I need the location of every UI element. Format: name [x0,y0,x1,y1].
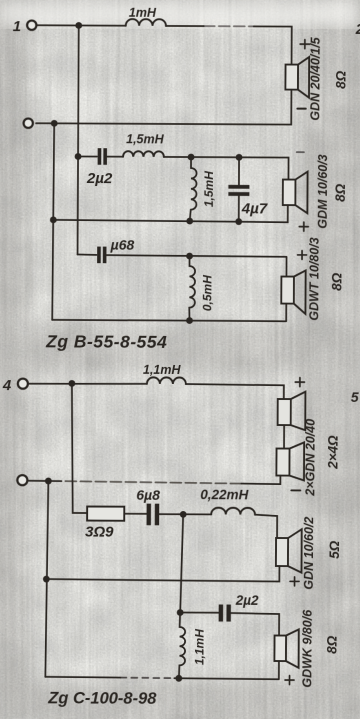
wire vertical bus G [45,481,48,677]
wire link between stack speakers [283,425,285,448]
svg-text:GDM 10/60/3: GDM 10/60/3 [316,154,330,228]
node junction L7 bottom [175,675,182,682]
svg-text:1,1mH: 1,1mH [192,629,206,665]
wire bottom rail [52,302,286,321]
wire [164,157,289,179]
wire top rail left [37,24,126,26]
svg-text:8Ω: 8Ω [333,183,348,202]
svg-text:Zg B-55-8-554: Zg B-55-8-554 [45,331,167,352]
wire LS1 bottom [36,88,291,124]
terminal 4 [2,377,28,394]
plus mark LS6 [285,676,294,685]
svg-text:1,5mH: 1,5mH [126,132,165,146]
wire top rail right [166,25,204,27]
wire [124,513,146,515]
svg-text:µ68: µ68 [110,237,135,253]
svg-text:0,22mH: 0,22mH [200,487,248,502]
inductor L5 1,1mH [143,363,186,384]
wire vertical from node F [71,383,88,513]
inductor L3 1,5mH shunt [190,157,216,221]
wire tweeter branch [180,612,218,614]
speaker LS3 GDWT 10/80/3 [281,237,344,321]
svg-text:Zg C-100-8-98: Zg C-100-8-98 [47,689,157,708]
wire [186,384,284,399]
node F junction [68,380,75,387]
svg-text:5Ω: 5Ω [327,540,342,559]
node junction C2 bottom [235,218,242,225]
node C junction [188,154,195,161]
svg-text:GDN 20/40/1/5: GDN 20/40/1/5 [308,36,322,121]
capacitor C5 2u2 [219,593,259,622]
svg-text:0,5mH: 0,5mH [200,275,214,311]
wire vertical from node H [180,514,183,612]
node mid junction on bus A [75,153,82,160]
svg-text:GDWK 9/80/6: GDWK 9/80/6 [300,609,314,688]
svg-text:8Ω: 8Ω [329,272,344,291]
svg-text:6µ8: 6µ8 [136,487,160,503]
svg-text:4: 4 [2,377,12,394]
terminal 2 [24,119,33,128]
node I junction [43,576,50,583]
inductor L4 0,5mH shunt [189,256,214,321]
speaker LS1 GDN 20/40/1/5 [285,36,348,121]
svg-text:1,1mH: 1,1mH [143,363,182,377]
wire stack bottom [241,475,280,484]
terminal 5 [17,475,27,485]
wire [106,255,286,276]
node junction L3 bottom [186,218,193,225]
inductor L1 1mH [126,6,166,26]
speaker LS4a 2xGDN 20/40 upper [278,392,306,431]
speaker LS2 GDM 10/60/3 [283,154,348,229]
wire mid branch [78,155,97,157]
plus mark LS5 [290,577,299,586]
minus mark LS2 [297,151,304,153]
node G junction [45,478,52,485]
svg-text:8Ω: 8Ω [324,635,339,654]
svg-text:4µ7: 4µ7 [241,200,268,217]
node junction L4 bottom [186,317,193,324]
speaker LS4b 2xGDN 20/40 lower [276,419,340,497]
speaker LS5 GDN 10/60/2 [276,517,342,590]
capacitor C4 6u8 [136,487,160,526]
svg-text:2µ2: 2µ2 [235,593,259,608]
svg-text:GDWT 10/80/3: GDWT 10/80/3 [307,237,321,320]
svg-text:1mH: 1mH [129,6,157,20]
wire [107,156,123,158]
capacitor C3 u68 [78,236,135,263]
wire speaker LS5 bottom [46,565,279,582]
plus mark LS3 [298,251,307,260]
svg-text:5: 5 [351,389,359,405]
inductor L2 1,5mH series [123,132,165,157]
node H junction [180,511,187,518]
node E junction [186,253,193,260]
wire bottom rail [45,676,120,679]
wire mid return rail [53,204,288,222]
wire [231,613,279,635]
wire [159,513,211,515]
svg-text:2µ2: 2µ2 [86,170,113,187]
svg-text:2×4Ω: 2×4Ω [325,435,340,470]
minus mark stack [291,489,300,491]
plus mark LS1 [300,40,310,49]
svg-text:2: 2 [355,21,360,38]
node A junction [75,22,82,29]
terminal 1 [13,18,37,35]
wire top rail [28,383,147,384]
inductor L7 1,1mH shunt [179,612,207,678]
capacitor C2 4u7 shunt [228,157,268,222]
plus mark LS2 [299,222,308,231]
speaker LS6 GDWK 9/80/6 [274,609,339,688]
wire [255,515,277,538]
svg-text:3Ω9: 3Ω9 [85,524,114,541]
node junction rail-busB [50,216,57,223]
svg-text:1: 1 [13,18,21,35]
svg-text:2×GDN 20/40: 2×GDN 20/40 [303,419,317,497]
svg-text:1,5mH: 1,5mH [202,171,216,207]
wire vertical bus B [52,123,54,320]
capacitor C1 2u2 [86,148,113,187]
node D junction [236,154,243,161]
svg-text:GDN 10/60/2: GDN 10/60/2 [302,517,316,590]
node B junction [51,120,58,127]
resistor R1 3R9 [85,507,124,541]
node J junction [177,609,184,616]
svg-text:8Ω: 8Ω [333,70,348,89]
wire vertical bus A [78,25,79,254]
minus mark LS1 [297,108,305,110]
plus mark stack [295,378,304,387]
inductor L6 0,22mH [200,487,255,515]
